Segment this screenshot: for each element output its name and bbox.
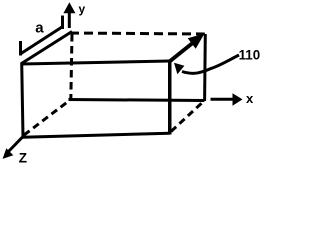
axis y arrow <box>63 2 75 28</box>
dimension a left tick <box>19 41 22 56</box>
wire front bottom edge <box>23 133 170 137</box>
wire back right edge <box>203 34 207 101</box>
wire top-left edge to back <box>22 32 73 64</box>
wire front top edge <box>22 61 170 64</box>
svg-text:x: x <box>246 91 254 106</box>
dimension a line <box>21 27 62 54</box>
wire hidden bottom-left diagonal dashed <box>24 100 70 135</box>
wire hidden bottom-right diagonal dashed <box>171 102 203 132</box>
arrow 110 label pointer <box>174 55 239 74</box>
wire front right edge <box>168 60 172 135</box>
wire back bottom edge <box>69 100 205 101</box>
axis z arrow <box>3 137 23 159</box>
svg-text:110: 110 <box>239 48 261 63</box>
axis x arrow <box>211 93 243 106</box>
wire back top edge dashed <box>70 33 205 34</box>
wire front left edge <box>22 63 23 138</box>
wire back left edge dashed <box>71 34 72 101</box>
svg-text:Z: Z <box>19 150 27 165</box>
svg-text:y: y <box>79 2 86 16</box>
dimension a right tick <box>61 16 64 30</box>
arrow 110 direction vector <box>170 34 205 62</box>
svg-text:a: a <box>35 19 44 36</box>
